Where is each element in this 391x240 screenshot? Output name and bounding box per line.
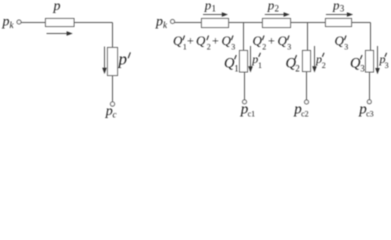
svg-text:3: 3 — [385, 61, 389, 70]
svg-text:+: + — [187, 34, 194, 48]
svg-text:Q: Q — [196, 33, 206, 48]
svg-text:p: p — [332, 0, 340, 12]
svg-text:p: p — [2, 15, 10, 30]
svg-text:c1: c1 — [248, 109, 256, 118]
svg-text:Q: Q — [278, 33, 288, 48]
svg-text:k: k — [10, 20, 15, 30]
svg-text:c3: c3 — [366, 109, 374, 118]
svg-text:Q: Q — [335, 33, 345, 48]
svg-text:3: 3 — [287, 43, 291, 52]
svg-text:3: 3 — [360, 64, 365, 74]
svg-text:1: 1 — [212, 3, 217, 13]
svg-text:2: 2 — [207, 43, 211, 52]
svg-text:3: 3 — [231, 43, 235, 52]
svg-text:p: p — [204, 0, 212, 12]
svg-text:Q: Q — [222, 33, 232, 48]
svg-text:p: p — [118, 50, 128, 69]
svg-text:k: k — [163, 20, 168, 30]
svg-text:3: 3 — [340, 3, 345, 13]
svg-text:Q: Q — [253, 33, 263, 48]
svg-text:+: + — [268, 34, 275, 48]
svg-text:1: 1 — [234, 64, 239, 74]
svg-text:p: p — [267, 0, 275, 12]
svg-text:2: 2 — [262, 43, 266, 52]
svg-text:p: p — [53, 0, 61, 14]
svg-text:2: 2 — [322, 61, 326, 70]
svg-text:Q: Q — [173, 33, 183, 48]
svg-text:p: p — [155, 15, 163, 30]
svg-text:+: + — [212, 34, 219, 48]
svg-text:3: 3 — [344, 43, 348, 52]
svg-text:c2: c2 — [301, 109, 309, 118]
svg-text:2: 2 — [295, 64, 300, 74]
svg-text:c: c — [113, 110, 117, 120]
svg-text:1: 1 — [258, 61, 262, 70]
svg-text:2: 2 — [275, 3, 280, 13]
